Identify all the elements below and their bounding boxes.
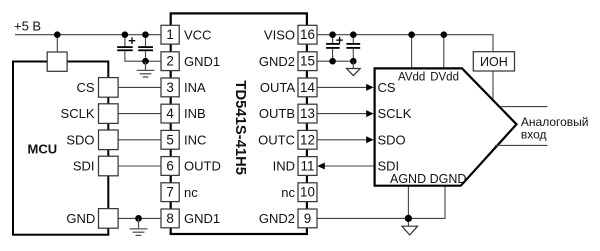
wire SDI pad to pin 6: [118, 165, 161, 167]
pin 16 box: [298, 25, 317, 44]
svg-text:IND: IND: [273, 159, 295, 174]
node junction dot C1 top: [122, 31, 129, 38]
node junction dot DVdd: [441, 31, 448, 38]
svg-text:SDO: SDO: [378, 132, 406, 147]
wire DVdd stem: [443, 35, 445, 68]
pin 4 box: [161, 104, 179, 123]
pin 15 box: [298, 52, 317, 71]
wire AVdd stem: [411, 35, 413, 68]
svg-text:nc: nc: [184, 185, 198, 200]
svg-text:VISO: VISO: [264, 27, 295, 42]
svg-text:7: 7: [166, 185, 173, 200]
svg-text:OUTD: OUTD: [184, 159, 221, 174]
svg-text:INA: INA: [184, 80, 206, 95]
svg-text:INB: INB: [184, 106, 206, 121]
svg-text:GND2: GND2: [259, 211, 295, 226]
pin 5 box: [161, 130, 179, 149]
wire ION to ADC: [492, 71, 494, 99]
node junction dot GND1: [142, 58, 149, 65]
capacitor C2 (+5V): [138, 35, 153, 62]
node junction dot AVdd: [408, 31, 415, 38]
svg-text:OUTB: OUTB: [259, 106, 295, 121]
svg-text:12: 12: [300, 132, 315, 147]
svg-text:5: 5: [166, 132, 173, 147]
pin 6 box: [161, 157, 179, 176]
wire GND2 pin15: [317, 60, 353, 62]
ground (triangle) below C4: [347, 61, 361, 75]
pin 9 box: [298, 209, 317, 228]
svg-text:14: 14: [300, 80, 315, 95]
MCU pad SDI: [99, 156, 119, 176]
pin 7 box: [161, 183, 179, 202]
ground (earth) below C2: [137, 61, 155, 77]
svg-text:AGND DGND: AGND DGND: [390, 172, 466, 186]
svg-text:OUTA: OUTA: [260, 80, 295, 95]
svg-text:15: 15: [300, 54, 315, 69]
node junction dot AGND/DGND: [405, 215, 412, 222]
svg-text:AVdd: AVdd: [398, 71, 425, 83]
svg-text:GND1: GND1: [184, 211, 220, 226]
pin 11 box: [298, 157, 317, 176]
MCU top pad: [47, 52, 67, 71]
op-amp ADC block (pentagon): [375, 68, 517, 185]
svg-text:2: 2: [166, 54, 173, 69]
svg-text:6: 6: [166, 159, 173, 174]
svg-text:DVdd: DVdd: [430, 71, 459, 83]
wire CS pad to pin 3: [118, 86, 161, 88]
wire VISO rail pin16 to ION corner: [317, 35, 493, 52]
node junction dot C2 top: [142, 31, 149, 38]
pin 1 box: [161, 25, 179, 44]
wire AGND stem: [407, 186, 409, 226]
wire OUTC pin12 to ADC SDO: [317, 139, 368, 141]
pin 3 box: [161, 78, 179, 97]
svg-text:11: 11: [301, 159, 315, 174]
pin 13 box: [298, 104, 317, 123]
wire SCLK pad to pin 4: [118, 113, 161, 115]
MCU pad SCLK: [99, 104, 119, 124]
wire GND pad to pin 8: [118, 217, 161, 219]
svg-text:8: 8: [166, 211, 173, 226]
svg-text:CS: CS: [76, 80, 94, 95]
pin 14 box: [298, 78, 317, 97]
node junction dot MCU GND: [135, 215, 142, 222]
svg-text:9: 9: [304, 211, 311, 226]
svg-text:nc: nc: [281, 185, 295, 200]
node junction dot C3 bottom: [329, 58, 336, 65]
svg-text:13: 13: [300, 106, 315, 121]
svg-text:CS: CS: [378, 80, 396, 95]
svg-text:GND2: GND2: [259, 54, 295, 69]
svg-text:VCC: VCC: [184, 27, 211, 42]
wire +5V rail to pin 1: [15, 34, 161, 36]
wire MCU supply stem: [56, 35, 58, 52]
wire SDO pad to pin 5: [118, 139, 161, 141]
svg-text:GND1: GND1: [184, 54, 220, 69]
svg-text:16: 16: [300, 27, 315, 42]
svg-text:MCU: MCU: [28, 141, 58, 156]
ground (triangle) below AGND: [402, 226, 418, 235]
svg-text:INC: INC: [184, 132, 206, 147]
svg-text:SDO: SDO: [66, 132, 94, 147]
svg-text:SCLK: SCLK: [378, 106, 412, 121]
svg-text:SDI: SDI: [73, 159, 95, 174]
svg-text:4: 4: [166, 106, 174, 121]
svg-text:TD541S-41H5: TD541S-41H5: [232, 80, 248, 175]
pin 2 box: [161, 52, 179, 71]
wire OUTA pin14 to ADC CS: [317, 86, 368, 88]
node junction dot C4 top: [350, 31, 357, 38]
svg-text:3: 3: [166, 80, 173, 95]
svg-text:+5 В: +5 В: [14, 19, 41, 34]
wire GND2 pin9 to DGND: [317, 186, 445, 219]
capacitor C1 (polarized, +5V): [117, 35, 145, 62]
pin 12 box: [298, 130, 317, 149]
IC TD541S-41H5 body: [171, 13, 307, 234]
voltage reference ION box: [473, 52, 514, 71]
node junction dot C4 bottom: [350, 58, 357, 65]
pin 8 box: [161, 209, 179, 228]
wire analog input upper: [500, 106, 548, 108]
wire ADC SDI to pin11 IND: [323, 165, 375, 167]
capacitor C4 (VISO): [346, 35, 360, 62]
svg-text:10: 10: [300, 185, 315, 200]
MCU pad GND: [99, 209, 119, 229]
wire GND1 pin2: [146, 60, 162, 62]
pin 10 box: [298, 183, 317, 202]
node junction dot C3 top: [329, 31, 336, 38]
MCU box: [13, 62, 108, 235]
MCU pad CS: [99, 78, 119, 98]
svg-text:ИОН: ИОН: [480, 55, 508, 69]
svg-text:вход: вход: [521, 127, 547, 141]
MCU pad SDO: [99, 130, 119, 150]
ground (earth) below MCU GND: [130, 218, 148, 235]
svg-text:GND: GND: [66, 211, 95, 226]
svg-text:SCLK: SCLK: [61, 106, 95, 121]
svg-text:1: 1: [166, 27, 173, 42]
wire analog input lower: [495, 144, 547, 146]
node junction dot +5V/MCU: [54, 31, 61, 38]
svg-text:OUTC: OUTC: [258, 132, 295, 147]
wire OUTB pin13 to ADC SCLK: [317, 113, 368, 115]
capacitor C3 (polarized, VISO): [326, 35, 343, 62]
